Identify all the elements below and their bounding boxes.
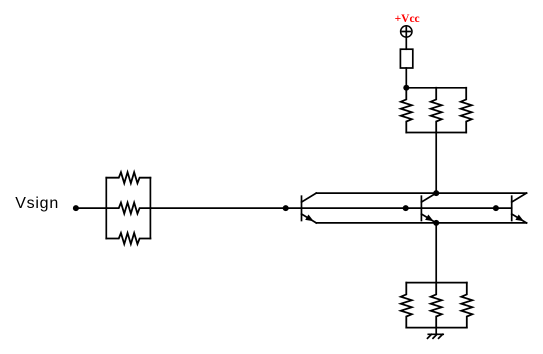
top resistor bank bottom bus — [406, 132, 466, 134]
node collector junction dot — [433, 190, 439, 196]
resistor R9 (bottom bank middle) — [431, 283, 442, 328]
transistor Q1 — [302, 193, 317, 223]
node base junction dot Q3 — [493, 205, 499, 211]
top resistor bank top bus — [406, 87, 466, 89]
transistor Q2 — [421, 193, 436, 223]
wire base rail Q1 to Q2 — [286, 207, 422, 209]
resistor R10 (bottom bank right) — [461, 283, 472, 328]
svg-text:+Vcc: +Vcc — [395, 13, 420, 25]
svg-text:Vsign: Vsign — [15, 195, 59, 212]
node A input terminal dot — [73, 205, 79, 211]
resistor R1 (input bank top) — [106, 172, 150, 183]
bottom resistor bank top bus — [406, 282, 467, 284]
left resistor bank left bus — [105, 178, 107, 239]
ground — [428, 334, 444, 338]
transistor Q3 — [512, 193, 527, 223]
wire left resistor bank to base rail — [150, 207, 285, 209]
wire emitter rail to bottom bank — [435, 223, 437, 283]
wire base rail Q2 to Q3 — [421, 207, 511, 209]
bottom resistor bank bottom bus — [406, 327, 467, 329]
resistor R8 (bottom bank left) — [401, 283, 412, 328]
resistor R2 (input bank middle) — [106, 203, 150, 214]
resistor R6 (top bank middle) — [431, 88, 442, 133]
wire input node to left resistor bank — [76, 207, 106, 209]
wire top bank to collector rail — [435, 133, 437, 194]
wire bottom bus to ground — [435, 328, 437, 335]
resistor R3 (input bank bottom) — [106, 233, 150, 244]
wire Vcc terminal to resistor R4 — [405, 37, 407, 49]
+Vcc terminal circle with plus — [401, 26, 412, 37]
wire collector rail — [316, 192, 526, 194]
node base junction dot Q2 — [403, 205, 409, 211]
resistor R4 (box style series resistor) — [400, 49, 412, 68]
resistor R5 (top bank left) — [401, 88, 412, 133]
node emitter junction dot — [433, 220, 439, 226]
resistor R7 (top bank right) — [461, 88, 472, 133]
node top bank junction dot — [403, 85, 409, 91]
wire resistor R4 to top bank junction — [405, 68, 407, 88]
wire emitter rail — [316, 222, 526, 224]
left resistor bank right bus — [149, 178, 151, 239]
node base junction dot Q1 — [283, 205, 289, 211]
